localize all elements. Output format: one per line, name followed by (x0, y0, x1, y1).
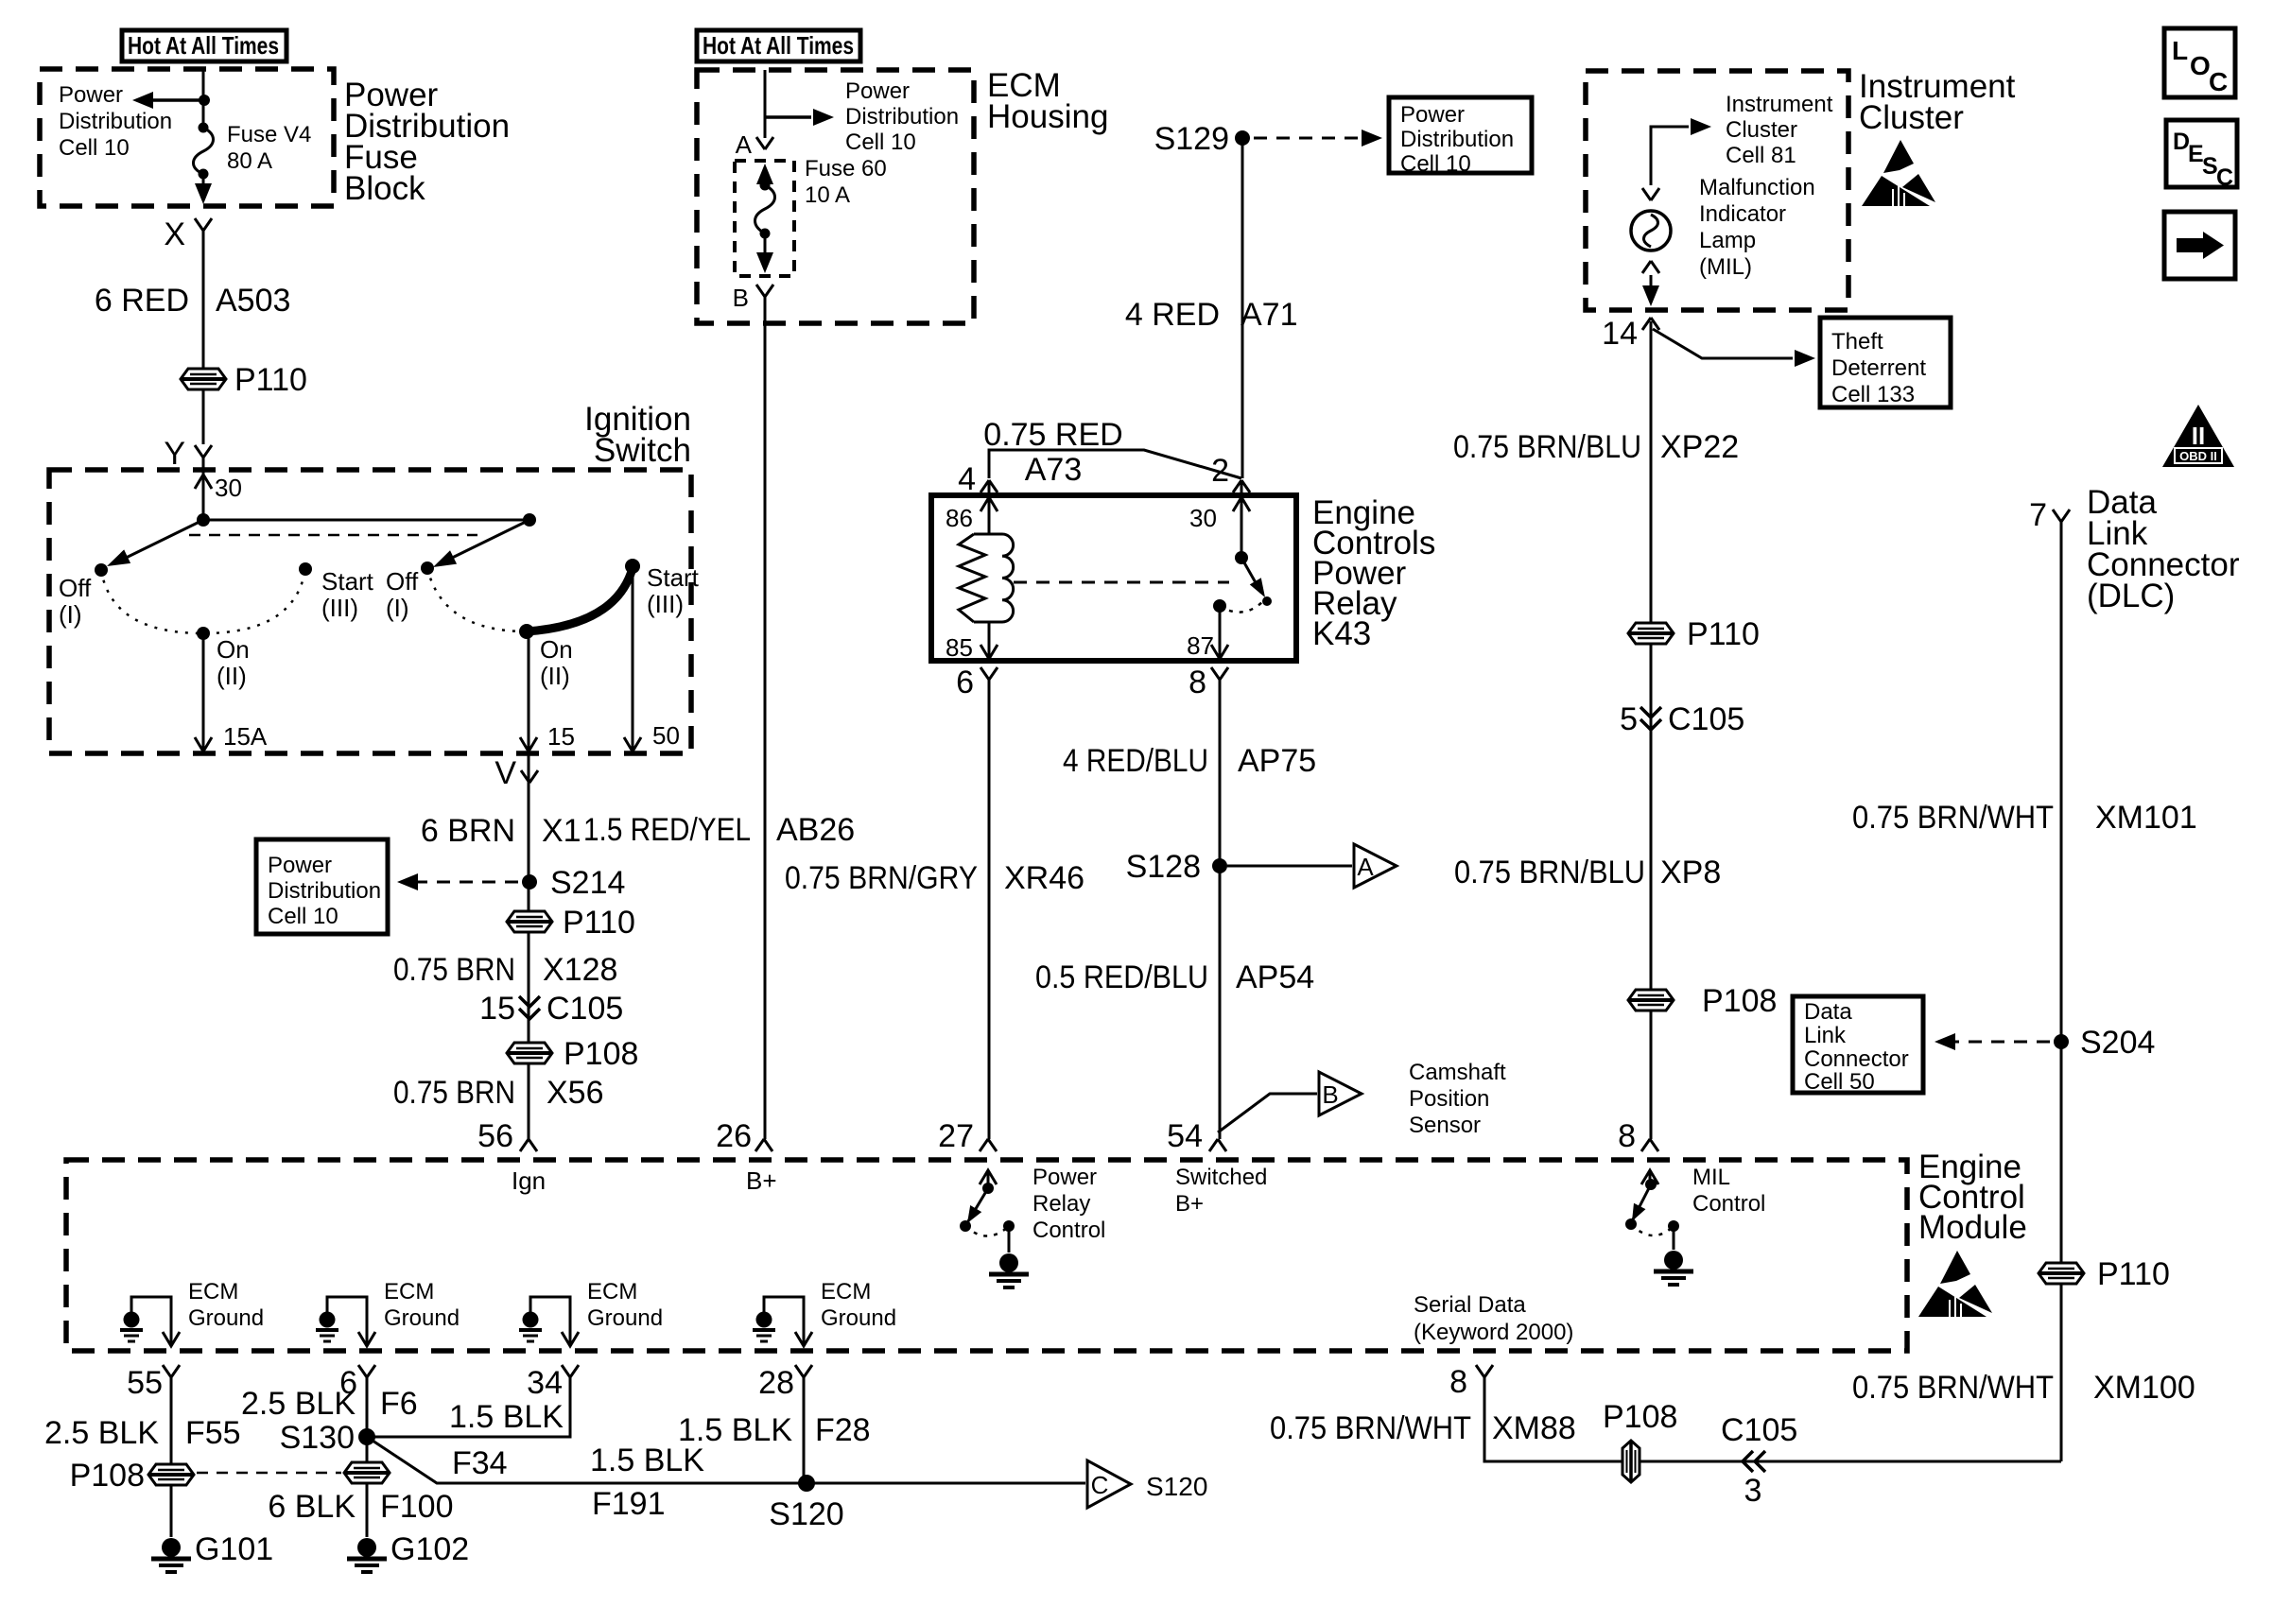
svg-text:87: 87 (1187, 631, 1214, 660)
svg-text:Malfunction: Malfunction (1699, 175, 1815, 200)
svg-text:0.75 BRN: 0.75 BRN (393, 952, 515, 988)
svg-text:Housing: Housing (987, 98, 1108, 135)
svg-text:30: 30 (1189, 504, 1217, 532)
svg-text:XR46: XR46 (1004, 860, 1084, 896)
svg-text:O: O (2190, 51, 2211, 80)
svg-text:P108: P108 (1603, 1399, 1677, 1435)
svg-text:1.5 BLK: 1.5 BLK (449, 1399, 564, 1435)
svg-text:A503: A503 (216, 283, 290, 319)
svg-text:ECM: ECM (587, 1279, 637, 1304)
svg-text:(DLC): (DLC) (2087, 578, 2175, 614)
svg-text:G101: G101 (195, 1531, 273, 1567)
svg-text:P110: P110 (2097, 1256, 2170, 1292)
svg-text:A: A (736, 130, 753, 159)
svg-text:S130: S130 (280, 1420, 355, 1456)
svg-text:L: L (2172, 36, 2188, 65)
svg-text:G102: G102 (390, 1531, 469, 1567)
svg-text:Sensor: Sensor (1409, 1113, 1481, 1138)
svg-text:Fuse 60: Fuse 60 (805, 156, 887, 181)
svg-text:Deterrent: Deterrent (1831, 355, 1926, 381)
svg-text:1.5 BLK: 1.5 BLK (678, 1412, 792, 1448)
svg-text:Cell 50: Cell 50 (1804, 1069, 1875, 1095)
svg-text:C105: C105 (1668, 701, 1744, 737)
svg-text:(I): (I) (59, 600, 82, 629)
svg-text:Power: Power (1400, 102, 1465, 128)
svg-text:Switch: Switch (594, 432, 691, 469)
svg-text:Serial Data: Serial Data (1414, 1292, 1526, 1318)
svg-text:C105: C105 (547, 991, 623, 1027)
svg-text:Cell 10: Cell 10 (268, 904, 338, 929)
svg-text:S128: S128 (1126, 849, 1201, 885)
svg-text:4 RED: 4 RED (1125, 297, 1220, 333)
svg-text:5: 5 (1620, 701, 1638, 737)
svg-text:4: 4 (958, 461, 976, 497)
svg-text:2.5 BLK: 2.5 BLK (241, 1386, 356, 1422)
svg-text:Power: Power (268, 853, 332, 878)
svg-text:Distribution: Distribution (59, 109, 172, 134)
svg-text:0.75 BRN/GRY: 0.75 BRN/GRY (785, 860, 978, 896)
svg-text:(Keyword 2000): (Keyword 2000) (1414, 1320, 1573, 1345)
svg-text:X1: X1 (542, 813, 581, 849)
svg-text:(I): (I) (386, 594, 409, 622)
svg-text:30: 30 (215, 474, 242, 502)
svg-text:27: 27 (938, 1118, 974, 1154)
svg-text:54: 54 (1167, 1118, 1203, 1154)
svg-text:OBD II: OBD II (2179, 449, 2217, 463)
svg-text:B+: B+ (1175, 1191, 1204, 1217)
svg-text:Hot At All Times: Hot At All Times (128, 31, 279, 60)
svg-text:2.5 BLK: 2.5 BLK (44, 1415, 159, 1451)
svg-text:6 RED: 6 RED (95, 283, 189, 319)
svg-text:Distribution: Distribution (1400, 127, 1514, 152)
svg-text:Connector: Connector (1804, 1046, 1909, 1072)
svg-text:26: 26 (716, 1118, 752, 1154)
svg-text:B: B (1322, 1080, 1338, 1109)
svg-text:P108: P108 (1702, 983, 1777, 1019)
svg-text:28: 28 (758, 1365, 794, 1401)
svg-text:Instrument: Instrument (1726, 92, 1833, 117)
svg-text:Control: Control (1692, 1191, 1765, 1217)
svg-text:C: C (2216, 164, 2233, 191)
svg-text:56: 56 (477, 1118, 513, 1154)
svg-text:6 BRN: 6 BRN (421, 813, 515, 849)
svg-text:P110: P110 (563, 905, 635, 941)
svg-text:Block: Block (344, 170, 425, 207)
svg-text:F28: F28 (815, 1412, 871, 1448)
svg-text:X56: X56 (547, 1075, 604, 1111)
svg-text:AP54: AP54 (1236, 959, 1314, 995)
svg-text:Module: Module (1918, 1209, 2027, 1246)
svg-text:S204: S204 (2080, 1025, 2155, 1061)
svg-text:Link: Link (1804, 1023, 1847, 1048)
svg-text:(II): (II) (540, 662, 570, 690)
svg-text:Cell 133: Cell 133 (1831, 382, 1915, 407)
svg-text:A: A (1357, 853, 1374, 881)
svg-text:Power: Power (59, 82, 123, 108)
svg-text:Camshaft: Camshaft (1409, 1060, 1506, 1085)
svg-text:Off: Off (59, 574, 92, 602)
svg-text:ECM: ECM (821, 1279, 871, 1304)
svg-text:Relay: Relay (1032, 1191, 1090, 1217)
svg-text:X128: X128 (543, 952, 617, 988)
svg-text:Fuse V4: Fuse V4 (227, 122, 311, 147)
svg-text:Cluster: Cluster (1726, 117, 1797, 143)
svg-text:Power: Power (1032, 1165, 1097, 1190)
svg-text:Start: Start (647, 563, 700, 592)
svg-text:ECM: ECM (188, 1279, 238, 1304)
svg-text:50: 50 (652, 721, 680, 750)
svg-text:Cell 10: Cell 10 (845, 130, 916, 155)
svg-text:F6: F6 (380, 1386, 418, 1422)
svg-text:(III): (III) (321, 594, 358, 622)
svg-text:S120: S120 (1146, 1472, 1207, 1501)
svg-text:Ground: Ground (821, 1305, 896, 1331)
svg-text:0.75 BRN/BLU: 0.75 BRN/BLU (1453, 429, 1641, 465)
svg-text:8: 8 (1618, 1118, 1636, 1154)
svg-text:Data: Data (1804, 999, 1852, 1025)
svg-text:Cell 10: Cell 10 (1400, 151, 1471, 177)
svg-text:X: X (164, 216, 185, 252)
svg-text:F55: F55 (185, 1415, 241, 1451)
svg-text:On: On (217, 635, 250, 664)
svg-text:0.75 BRN/WHT: 0.75 BRN/WHT (1270, 1410, 1471, 1446)
svg-text:6 BLK: 6 BLK (268, 1489, 356, 1525)
svg-text:0.75 RED: 0.75 RED (983, 417, 1122, 453)
svg-text:85: 85 (946, 633, 973, 662)
svg-text:S120: S120 (769, 1496, 843, 1532)
svg-text:MIL: MIL (1692, 1165, 1730, 1190)
svg-text:Y: Y (164, 436, 185, 472)
svg-text:XP22: XP22 (1660, 429, 1739, 465)
svg-text:C: C (1091, 1471, 1109, 1499)
svg-text:P110: P110 (1687, 616, 1760, 652)
svg-text:Control: Control (1032, 1218, 1105, 1243)
svg-text:B+: B+ (746, 1166, 777, 1195)
svg-text:34: 34 (527, 1365, 563, 1401)
svg-text:2: 2 (1211, 453, 1229, 489)
svg-text:Cell 81: Cell 81 (1726, 143, 1796, 168)
svg-text:Position: Position (1409, 1086, 1489, 1112)
svg-text:C: C (2209, 67, 2228, 96)
svg-text:B: B (733, 284, 749, 312)
svg-text:Switched: Switched (1175, 1165, 1267, 1190)
svg-text:XM100: XM100 (2093, 1370, 2195, 1406)
svg-text:XP8: XP8 (1660, 855, 1721, 890)
svg-text:Distribution: Distribution (268, 878, 381, 904)
svg-text:1.5 RED/YEL: 1.5 RED/YEL (583, 812, 751, 848)
svg-text:Power: Power (845, 78, 910, 104)
svg-text:Ground: Ground (384, 1305, 460, 1331)
svg-text:Cluster: Cluster (1859, 99, 1964, 136)
svg-text:Theft: Theft (1831, 329, 1883, 354)
svg-text:86: 86 (946, 504, 973, 532)
svg-text:P108: P108 (70, 1458, 145, 1494)
svg-text:8: 8 (1189, 665, 1206, 700)
svg-text:15A: 15A (223, 722, 268, 751)
svg-text:14: 14 (1602, 316, 1638, 352)
svg-text:S214: S214 (550, 865, 625, 901)
svg-text:15: 15 (479, 991, 515, 1027)
svg-text:ECM: ECM (384, 1279, 434, 1304)
svg-text:4 RED/BLU: 4 RED/BLU (1063, 743, 1208, 779)
svg-text:Distribution: Distribution (845, 104, 959, 130)
svg-text:(MIL): (MIL) (1699, 254, 1752, 280)
svg-text:II: II (2192, 422, 2205, 450)
svg-text:XM88: XM88 (1492, 1410, 1576, 1446)
svg-text:Ground: Ground (188, 1305, 264, 1331)
svg-text:0.75 BRN: 0.75 BRN (393, 1075, 515, 1111)
svg-text:V: V (495, 755, 516, 791)
svg-text:S129: S129 (1154, 121, 1229, 157)
svg-text:0.5 RED/BLU: 0.5 RED/BLU (1035, 959, 1208, 995)
svg-text:On: On (540, 635, 573, 664)
svg-text:P110: P110 (234, 362, 307, 398)
svg-text:AB26: AB26 (776, 812, 855, 848)
svg-text:0.75 BRN/WHT: 0.75 BRN/WHT (1852, 1370, 2054, 1406)
svg-text:K43: K43 (1312, 615, 1371, 652)
svg-text:Hot At All Times: Hot At All Times (703, 31, 854, 60)
svg-text:F191: F191 (592, 1486, 666, 1522)
svg-text:Start: Start (321, 567, 374, 596)
svg-text:6: 6 (956, 665, 974, 700)
svg-text:Cell 10: Cell 10 (59, 135, 130, 161)
svg-text:C105: C105 (1721, 1412, 1797, 1448)
svg-text:80 A: 80 A (227, 148, 272, 174)
svg-text:55: 55 (127, 1365, 163, 1401)
svg-text:3: 3 (1744, 1473, 1762, 1509)
svg-text:(III): (III) (647, 590, 684, 618)
svg-text:Ground: Ground (587, 1305, 663, 1331)
svg-text:AP75: AP75 (1238, 743, 1316, 779)
svg-text:(II): (II) (217, 662, 247, 690)
svg-text:A71: A71 (1241, 297, 1298, 333)
svg-text:8: 8 (1449, 1364, 1467, 1400)
svg-text:Ign: Ign (512, 1166, 546, 1195)
svg-text:F34: F34 (452, 1445, 508, 1481)
svg-text:15: 15 (547, 722, 575, 751)
svg-text:A73: A73 (1025, 452, 1083, 488)
svg-text:Off: Off (386, 567, 419, 596)
svg-text:0.75 BRN/BLU: 0.75 BRN/BLU (1454, 855, 1645, 890)
svg-text:XM101: XM101 (2095, 800, 2197, 836)
svg-text:F100: F100 (380, 1489, 454, 1525)
svg-text:7: 7 (2029, 497, 2047, 533)
svg-text:Lamp: Lamp (1699, 228, 1756, 253)
svg-text:P108: P108 (564, 1036, 638, 1072)
svg-text:10 A: 10 A (805, 182, 850, 208)
svg-text:0.75 BRN/WHT: 0.75 BRN/WHT (1852, 800, 2054, 836)
svg-text:Indicator: Indicator (1699, 201, 1786, 227)
